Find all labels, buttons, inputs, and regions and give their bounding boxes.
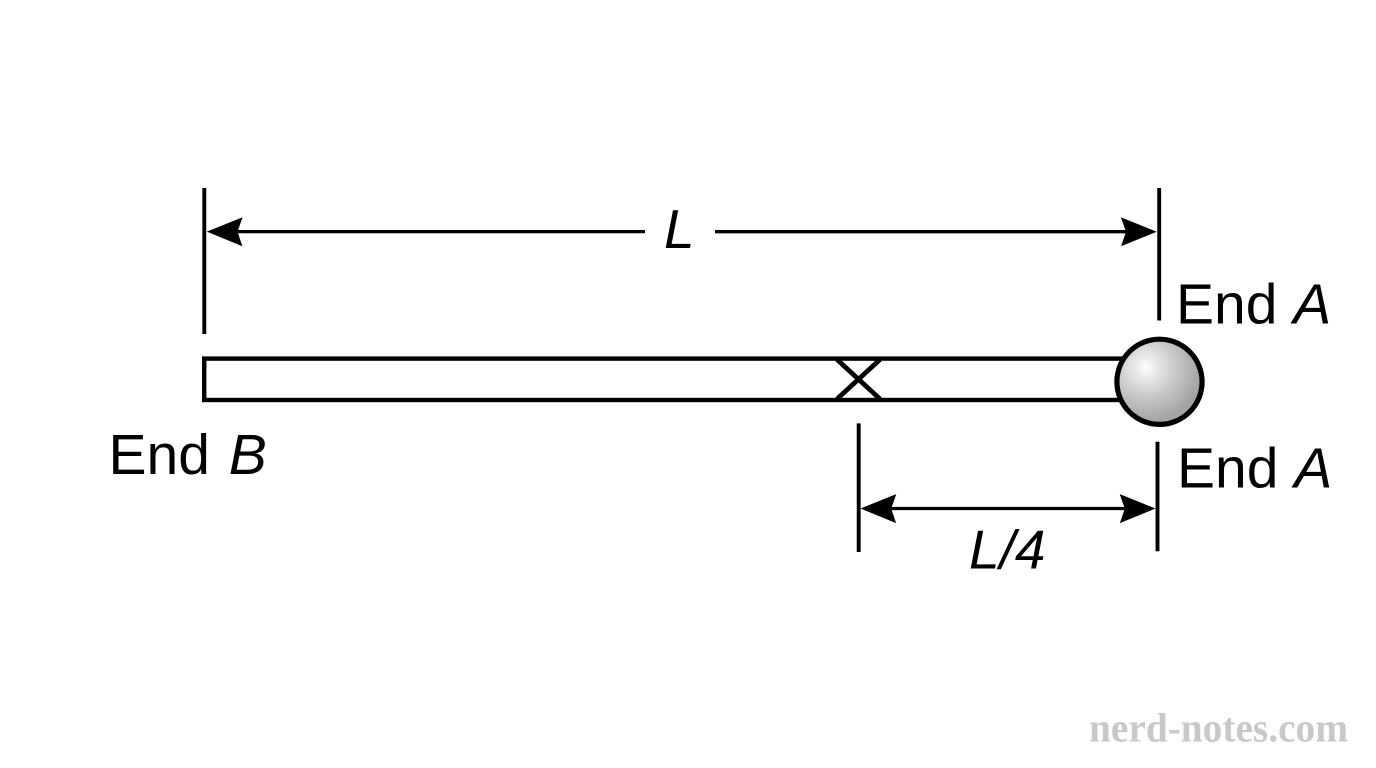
left extension tick <box>202 188 206 334</box>
svg-text:L/4: L/4 <box>969 519 1045 581</box>
svg-text:End A: End A <box>1177 437 1332 501</box>
X mark (pivot point at L/4 from End A) <box>837 360 880 400</box>
left extension tick (below X) <box>857 423 861 552</box>
ball (small sphere attached at End A) <box>1117 339 1202 424</box>
left arrowhead <box>207 217 243 246</box>
right arrowhead <box>1121 217 1157 246</box>
right arrowhead <box>1120 494 1156 523</box>
svg-text:End B: End B <box>109 423 267 487</box>
right extension tick <box>1157 188 1161 321</box>
dimension line <box>888 507 1128 510</box>
dimension line left segment <box>235 230 645 233</box>
bottom dimension: distance L/4 from X to End A <box>859 423 1158 580</box>
right extension tick (below ball) <box>1156 442 1160 552</box>
svg-text:L: L <box>664 198 695 260</box>
rod (thin uniform rod, End B at left) <box>204 359 1122 400</box>
svg-text:End A: End A <box>1176 273 1331 337</box>
top dimension: overall length L <box>204 188 1159 334</box>
left arrowhead <box>861 494 897 523</box>
dimension line right segment <box>715 230 1129 233</box>
svg-text:nerd-notes.com: nerd-notes.com <box>1089 705 1348 751</box>
